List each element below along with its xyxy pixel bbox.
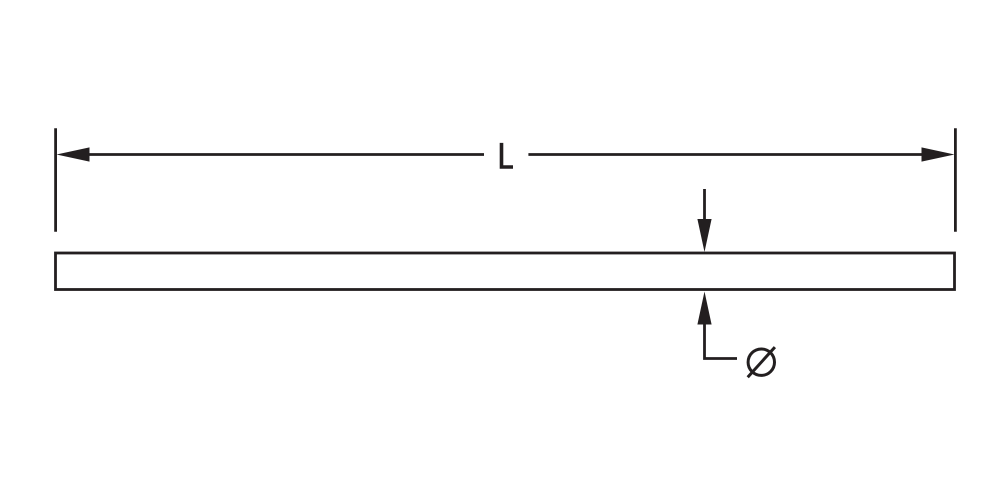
- right extension line: [954, 128, 957, 232]
- bottom diameter arrowhead: [697, 292, 711, 325]
- top diameter arrowhead: [697, 219, 711, 252]
- dimension line L right segment: [528, 153, 924, 156]
- top diameter arrow line: [703, 189, 706, 222]
- label L: [500, 143, 513, 169]
- rod outline: [56, 253, 955, 290]
- diameter symbol circle: [748, 349, 774, 375]
- right arrowhead: [922, 147, 955, 161]
- dimension line L left segment: [86, 153, 484, 156]
- left extension line: [54, 128, 57, 232]
- bottom diameter leader: [705, 322, 738, 359]
- diameter symbol slash: [748, 347, 775, 377]
- left arrowhead: [57, 147, 90, 161]
